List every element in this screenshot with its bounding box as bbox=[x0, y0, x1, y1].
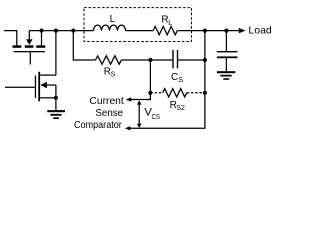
label RL bbox=[161, 15, 172, 27]
svg-text:S: S bbox=[178, 77, 183, 84]
inductor L bbox=[94, 25, 126, 30]
svg-text:Sense: Sense bbox=[95, 107, 123, 119]
arrow to Load bbox=[239, 28, 246, 33]
wire dashed RS2 left lead bbox=[150, 92, 162, 94]
wire Q2 gate input bbox=[5, 86, 35, 88]
arrow comparator input 1 bbox=[126, 97, 132, 101]
node right sense rail junction bbox=[203, 29, 207, 33]
node sense resistor tap junction bbox=[71, 29, 75, 33]
dashed box around L and RL bbox=[84, 8, 192, 42]
svg-text:S: S bbox=[111, 72, 116, 79]
node Q1 source junction bbox=[39, 29, 43, 33]
wire supply input to Q1 bbox=[4, 31, 17, 46]
svg-text:L: L bbox=[110, 14, 116, 25]
wire CS to right rail bbox=[178, 59, 205, 61]
label CS bbox=[171, 72, 183, 84]
node RS2 left junction bbox=[148, 91, 152, 95]
node sense divider junction bbox=[148, 58, 152, 62]
label RS bbox=[104, 67, 116, 79]
node Q2 source junction bbox=[54, 96, 58, 100]
svg-text:Comparator: Comparator bbox=[74, 119, 122, 131]
capacitor output bbox=[217, 51, 238, 58]
wire between L and RL bbox=[126, 30, 154, 32]
wire dashed RS2 right lead bbox=[187, 92, 205, 94]
svg-text:L: L bbox=[168, 20, 172, 27]
wire output cap bottom lead bbox=[225, 58, 227, 71]
ground (below Q2) bbox=[47, 110, 65, 119]
svg-text:S2: S2 bbox=[176, 105, 185, 112]
svg-text:Load: Load bbox=[248, 25, 272, 37]
transistor Q2 (low-side MOSFET) bbox=[35, 72, 56, 102]
node Q2 drain junction bbox=[54, 29, 58, 33]
wire rail drop to RS bbox=[73, 31, 95, 60]
wire sense vertical to comparator bbox=[130, 60, 151, 100]
svg-text:C: C bbox=[171, 72, 178, 83]
wire Q2 drain to rail bbox=[55, 31, 57, 76]
wire output cap top lead bbox=[225, 31, 227, 52]
label VCS bbox=[144, 106, 160, 121]
node output capacitor junction bbox=[224, 29, 228, 33]
wire right rail down to comparator bbox=[129, 31, 205, 129]
node CS right junction bbox=[203, 58, 207, 62]
svg-text:CS: CS bbox=[152, 114, 161, 121]
arrow VCS measurement bbox=[137, 100, 142, 128]
node RS2 right junction bbox=[203, 91, 207, 95]
capacitor CS bbox=[172, 50, 178, 68]
label RS2 bbox=[170, 100, 185, 112]
label Current Sense Comparator bbox=[74, 95, 124, 131]
svg-text:Current: Current bbox=[89, 95, 123, 107]
wire output rail bbox=[29, 30, 93, 32]
resistor RL bbox=[153, 26, 177, 34]
resistor RS bbox=[96, 56, 122, 64]
wire RS to CS bbox=[121, 59, 172, 61]
ground (output cap) bbox=[217, 71, 235, 80]
wire Q2 source to ground bbox=[55, 98, 57, 111]
arrow comparator input 2 bbox=[125, 126, 131, 130]
resistor RS2 bbox=[163, 89, 187, 97]
transistor Q1 (high-side MOSFET, drawn gate-down) bbox=[13, 31, 46, 53]
wire Q1 gate lead bbox=[29, 52, 31, 64]
wire RL to load arrow bbox=[177, 30, 239, 32]
